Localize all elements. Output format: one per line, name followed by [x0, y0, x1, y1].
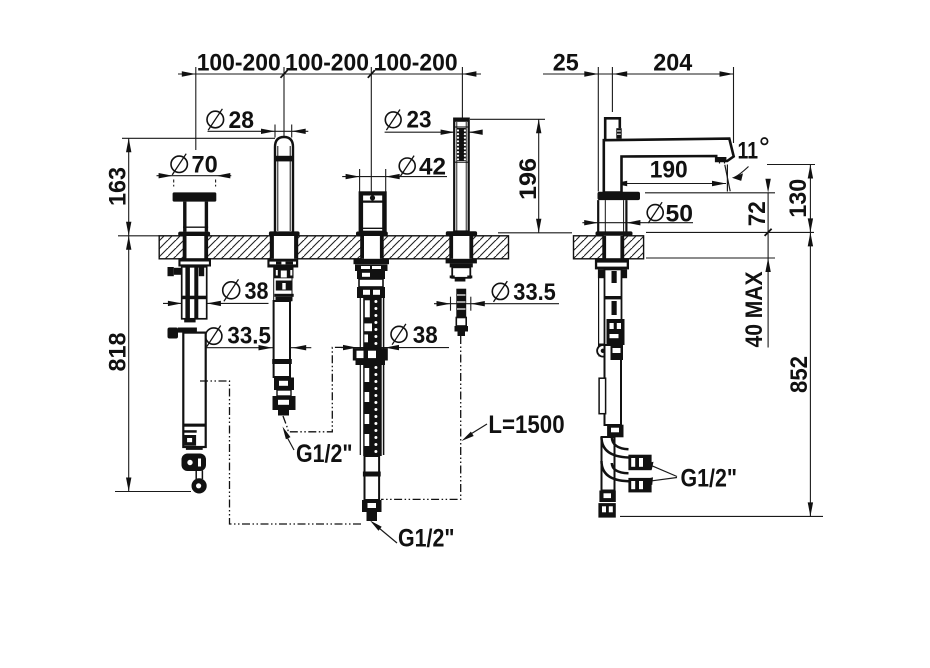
- side valve circle: [597, 345, 609, 357]
- dimension 40 MAX: [646, 258, 775, 348]
- fixture 1: handle Ø70: [168, 192, 217, 493]
- label G1/2 (spout hose): [283, 427, 353, 469]
- deck flange: [356, 232, 388, 237]
- dimension chain 100-200 x3 top left: [178, 50, 481, 193]
- locknut: [178, 258, 211, 266]
- shank through deck: [271, 236, 274, 259]
- hose coupling nut: [353, 348, 388, 360]
- aerator: [717, 157, 727, 160]
- shank through deck: [450, 236, 453, 259]
- svg-text:163: 163: [105, 167, 132, 206]
- dimension 852: [620, 232, 823, 516]
- locknut: [354, 259, 390, 264]
- dimension 25 / 204 top right: [543, 50, 734, 192]
- valve block: [607, 319, 625, 345]
- inlet nut 1: [628, 455, 651, 471]
- diameter label 50 (mixer body): [582, 201, 693, 228]
- supply end fitting: [599, 491, 615, 503]
- trim band: [275, 156, 293, 162]
- angle 11 deg: [725, 138, 768, 192]
- tee fitting: [607, 425, 623, 438]
- handle cap: [173, 192, 217, 201]
- shank through deck: [361, 236, 364, 259]
- deck flange: [596, 231, 633, 235]
- handle stem: [183, 202, 186, 232]
- deck cross-section right fixture: [574, 236, 644, 259]
- svg-text:70: 70: [192, 151, 218, 178]
- svg-text:852: 852: [786, 356, 813, 393]
- svg-text:25: 25: [553, 50, 579, 77]
- deck cross-section left group: [159, 236, 508, 259]
- tail fittings: [273, 268, 275, 302]
- upper fittings: [357, 271, 385, 279]
- lower tube: [365, 456, 380, 500]
- spout column with domed top: [275, 137, 293, 232]
- svg-text:130: 130: [785, 179, 812, 218]
- hose end fitting: [274, 378, 294, 391]
- svg-text:38: 38: [413, 322, 438, 349]
- svg-text:23: 23: [407, 107, 432, 134]
- wire path B: spout hose routing: [283, 347, 349, 431]
- side elbow: [599, 344, 606, 357]
- deck flange: [269, 231, 300, 236]
- locknut: [267, 259, 298, 268]
- supply tube: [183, 333, 205, 447]
- fixture 5: single-hole mixer (right view): [595, 118, 734, 517]
- svg-text:33.5: 33.5: [227, 323, 271, 350]
- wire path C: handshower hose routing: [381, 336, 461, 499]
- svg-text:100-200: 100-200: [197, 50, 281, 77]
- shank through deck: [603, 236, 606, 259]
- dimension 130: [646, 165, 815, 517]
- label G1/2 (mixer inlets): [640, 462, 737, 493]
- hose routing dashed lines: [200, 336, 461, 524]
- svg-text:50: 50: [666, 201, 694, 228]
- diameter label 38 (diverter hose): [341, 322, 449, 350]
- svg-text:11: 11: [738, 138, 759, 165]
- tail tube: [274, 301, 290, 377]
- svg-text:38: 38: [245, 278, 269, 305]
- hose connector: [456, 289, 466, 318]
- shower wand: [454, 119, 469, 232]
- side outlet knob: [168, 328, 179, 339]
- shank through deck: [183, 236, 186, 259]
- mounting tabs: [598, 269, 604, 278]
- inlet elbow pipes: [602, 437, 629, 458]
- svg-text:100-200: 100-200: [374, 50, 458, 77]
- svg-text:40 MAX: 40 MAX: [741, 272, 768, 348]
- svg-text:190: 190: [650, 156, 688, 183]
- locknut: [446, 259, 477, 264]
- fixture 4: handshower Ø23: [446, 119, 477, 336]
- base escutcheon: [598, 192, 641, 200]
- diameter label 28 (spout): [207, 107, 308, 137]
- svg-text:L=1500: L=1500: [488, 411, 564, 439]
- ball joint fitting: [182, 454, 207, 472]
- dimension 72: [645, 179, 775, 348]
- locknut: [595, 258, 629, 269]
- diameter label 38 (handle valve body): [163, 278, 269, 306]
- diameter label 42 (diverter): [342, 153, 447, 192]
- inlet nut 2: [628, 478, 651, 493]
- Ø50 body column: [597, 200, 599, 231]
- mounting studs / valve body: [182, 267, 207, 319]
- svg-text:G1/2": G1/2": [296, 440, 353, 468]
- body tube: [605, 269, 622, 345]
- dimension 190 spout reach: [613, 156, 726, 189]
- svg-text:204: 204: [653, 50, 693, 77]
- braided hose: [359, 298, 361, 455]
- fixture 2: bath spout Ø28: [267, 137, 299, 416]
- dimension 818 left: [105, 236, 192, 492]
- spout body: [604, 139, 734, 193]
- diameter label 70 (handle cap): [157, 151, 232, 186]
- body: [360, 192, 386, 231]
- diameter label 23 (handshower): [385, 107, 483, 135]
- label L=1500 (handshower hose length): [462, 411, 565, 441]
- svg-text:G1/2": G1/2": [398, 525, 455, 553]
- temperature lever: [605, 118, 620, 140]
- svg-text:28: 28: [229, 107, 255, 134]
- svg-text:818: 818: [105, 333, 132, 372]
- dimension 196 handshower height: [470, 119, 572, 233]
- deck flange: [178, 232, 210, 236]
- dimension 163 left: [105, 138, 276, 236]
- wire path A: handle hose routing: [200, 381, 362, 524]
- label G1/2 (diverter hose): [370, 521, 455, 553]
- holder shank: [452, 267, 470, 278]
- hose end ball: [192, 478, 207, 493]
- diameter label 33.5 (spout tail): [202, 323, 312, 351]
- svg-text:196: 196: [515, 158, 542, 200]
- svg-text:100-200: 100-200: [285, 50, 369, 77]
- diameter label 33.5 (handshower tail): [434, 279, 559, 311]
- fixture 3: diverter Ø42: [353, 192, 389, 521]
- svg-text:72: 72: [744, 201, 771, 226]
- lower tube: [605, 345, 622, 425]
- deck flange: [446, 231, 477, 236]
- hose end fitting: [362, 500, 382, 512]
- svg-text:33.5: 33.5: [513, 279, 556, 306]
- svg-text:G1/2": G1/2": [681, 465, 738, 493]
